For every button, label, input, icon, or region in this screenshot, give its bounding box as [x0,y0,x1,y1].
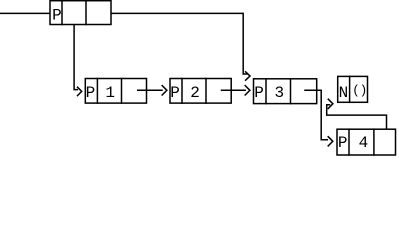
svg-text:2: 2 [190,84,200,102]
svg-text:(): () [352,84,367,98]
svg-text:P: P [338,134,348,152]
svg-text:P: P [254,84,264,102]
svg-text:P: P [170,84,180,102]
svg-text:P: P [52,7,62,25]
svg-text:N: N [339,84,349,102]
svg-text:P: P [86,84,96,102]
svg-text:3: 3 [274,84,284,102]
svg-text:1: 1 [105,84,115,102]
svg-text:4: 4 [359,134,369,152]
